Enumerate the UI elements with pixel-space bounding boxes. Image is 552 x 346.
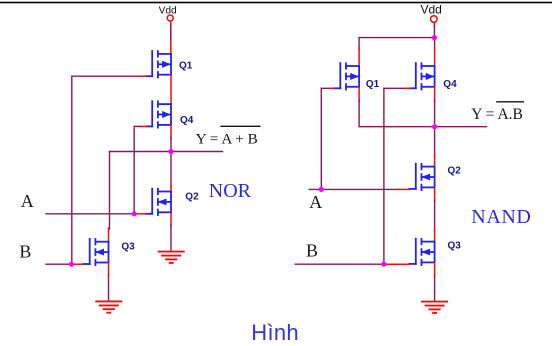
wire Q4 gate to A net [134,125,141,127]
wire A net vertical right [320,88,322,189]
svg-text:A: A [21,191,34,211]
wire Q4 source stub [434,87,436,101]
svg-text:Q1: Q1 [179,60,193,71]
wire input A horizontal [46,213,134,215]
node A junction (left) [132,211,137,216]
svg-text:Vdd: Vdd [159,5,177,16]
wire Vdd net horizontal [359,37,435,39]
wire Q2 gate stub [134,213,146,215]
wire Q1 drain stub [358,48,360,66]
overline over A.B [496,101,524,103]
svg-text:Y = A + B: Y = A + B [196,131,258,148]
wire A net vertical [133,126,135,213]
svg-text:B: B [19,242,31,262]
node output Y (left) [168,149,173,154]
wire Q3 source stub right [434,262,436,276]
wire Q4 source to output node [170,138,172,152]
transistor Q1 (PMOS, right) [334,63,359,89]
svg-text:Q4: Q4 [180,115,194,126]
wire Q4 source to output node [434,100,436,127]
wire output net down to Q2 drain [170,152,172,188]
wire Q3 gate stub [71,263,83,265]
svg-text:NOR: NOR [209,180,252,202]
svg-text:Q3: Q3 [448,240,462,251]
wire Q4 gate to B net [384,87,407,89]
wire output Y horizontal right [435,126,487,128]
wire Q3 source stub [108,263,110,276]
Vdd terminal circle left [167,15,173,21]
wire Q4 gate stub [140,125,146,127]
svg-text:Hình: Hình [251,320,299,345]
wire Q2 source to ground [170,225,172,251]
transistor Q3 (NMOS, left) [83,239,108,265]
node B junction (left) [69,262,74,267]
wire Vdd net to Q4 drain [434,38,436,49]
wire Q3 source to ground [108,275,110,301]
node Vdd junction [432,35,437,40]
wire Q1 source stub [358,87,360,101]
wire Q4 gate stub right [406,87,410,89]
wire Q1 source to Q4 drain [170,75,172,104]
svg-text:Q3: Q3 [121,241,135,252]
node A junction (right) [319,187,324,192]
transistor Q4 (PMOS, left) [146,101,171,127]
wire Q1 gate stub [139,75,147,77]
svg-text:Y = A.B: Y = A.B [471,106,523,123]
wire Q4 source stub [170,125,172,139]
overline over A+B [220,125,260,127]
wire input A right [309,188,398,190]
ground under Q3 [95,301,122,312]
wire Q2 source to Q3 drain [434,200,436,230]
node output Y (right) [432,124,437,129]
ground under Q3 right [421,302,448,313]
wire B net vertical [71,76,73,264]
wire Q2 drain stub [434,155,436,167]
ground under Q2 [158,252,185,263]
svg-text:A: A [309,192,322,212]
wire Q2 gate stub right [398,188,410,190]
wire output down to Q2 [434,127,436,156]
transistor Q1 (PMOS, left) [146,51,171,77]
wire Vdd stub to Q1 drain [170,21,172,54]
wire Q2 source stub [170,212,172,226]
transistor Q4 (PMOS, right) [409,63,434,89]
node B junction (right) [381,262,386,267]
wire input B right [295,263,384,265]
transistor Q2 (NMOS, left) [146,189,171,215]
wire output net down to Q3 drain [109,152,111,230]
wire B net vertical right [383,88,385,264]
svg-text:Q2: Q2 [448,165,462,176]
wire Vdd net down to junction [433,26,435,38]
top border [0,2,552,4]
wire Vdd net to Q1 drain [358,38,360,49]
svg-text:Q1: Q1 [366,79,380,90]
wire Vdd stub right [433,22,435,26]
wire Q3 source to ground right [434,275,436,301]
wire Q1 gate stub right [330,87,334,89]
svg-text:Q4: Q4 [443,79,457,90]
svg-text:Vdd: Vdd [421,2,442,16]
wire Q2 drain stub [170,186,172,192]
wire Q2 source stub [434,187,436,201]
wire output Y net horizontal [110,151,223,153]
transistor Q3 (NMOS, right) [409,239,434,265]
wire Q4 drain stub [434,48,436,66]
wire input B horizontal [46,263,71,265]
wire Q3 drain stub [434,229,436,242]
wire Q1 gate to A net [321,87,331,89]
wire Q3 gate stub right [384,263,410,265]
Vdd terminal circle right [431,16,438,23]
wire Q3 drain stub [108,228,110,242]
svg-text:Q2: Q2 [185,191,199,202]
wire Q1 source to output node [359,100,435,127]
transistor Q2 (NMOS, right) [409,164,434,190]
wire Vdd net segment [170,27,172,41]
svg-text:B: B [306,240,318,260]
wire Q1 gate to B net [72,75,140,77]
svg-text:NAND: NAND [471,206,531,228]
